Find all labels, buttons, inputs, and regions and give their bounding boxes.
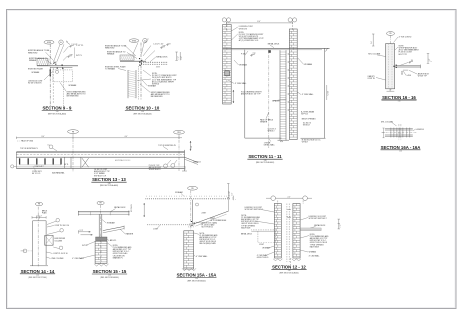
section 10-10 bolts	[139, 58, 140, 59]
section 13-13 light dashed line	[16, 154, 184, 156]
section 9-9 grid leader lines	[66, 42, 70, 45]
svg-text:REMOVED: REMOVED	[105, 48, 115, 50]
section 11-11 grid centerline right	[291, 22, 293, 30]
section 16-16 below-angle line	[403, 69, 408, 71]
section 11-11 right masonry wall	[289, 29, 297, 140]
section 12-12 right deck band	[300, 228, 321, 231]
svg-text:4" CMU WALL: 4" CMU WALL	[196, 255, 208, 258]
section 10-10 weld flag a	[161, 47, 165, 48]
section 9-9 stiffener dashed box	[53, 70, 73, 82]
svg-text:1/4: 1/4	[411, 60, 413, 62]
svg-text:SECTION 9 - 9: SECTION 9 - 9	[43, 106, 73, 111]
svg-text:COLUMN: COLUMN	[55, 240, 63, 242]
svg-text:8 1/2": 8 1/2"	[185, 165, 187, 169]
svg-text:TYP: TYP	[163, 45, 166, 47]
section 13-13 top of existing pl line	[16, 151, 184, 153]
svg-text:CONT PL 3/4 X 10: CONT PL 3/4 X 10	[55, 225, 70, 227]
section 16A splice bars	[385, 128, 413, 130]
section 13-13 beam flange bottom	[16, 166, 184, 168]
svg-text:W/ NUT TYP: W/ NUT TYP	[418, 75, 427, 77]
section 12-12 right dim stack	[338, 219, 340, 229]
svg-text:CONT PL: CONT PL	[368, 78, 375, 80]
section 15-15 left dim arrows	[79, 231, 91, 233]
section 10-10 column centerline	[138, 66, 140, 100]
section 10-10 column lines	[127, 70, 129, 98]
section 16-16 grid oval PE	[387, 32, 395, 36]
svg-text:W/ BOLT: W/ BOLT	[268, 131, 276, 133]
svg-text:METAL DECK: METAL DECK	[241, 233, 253, 236]
section 15A grid oval PE	[188, 186, 198, 190]
section 9-9 bolts	[54, 62, 55, 63]
section 15-15 hanger diagonals	[103, 226, 124, 230]
section 15-15 grid oval PE	[97, 201, 104, 205]
section 15A right dim	[227, 184, 229, 212]
svg-text:PE3: PE3	[177, 132, 180, 134]
svg-text:W BEAM: W BEAM	[32, 71, 40, 74]
svg-text:4" CMU WALL: 4" CMU WALL	[309, 254, 320, 257]
svg-text:3 1/2": 3 1/2"	[181, 56, 183, 60]
section 9-9 beam top flange	[37, 65, 78, 67]
svg-text:BRG PL: BRG PL	[110, 240, 116, 242]
section 11-11 center dashed line	[268, 49, 270, 148]
svg-text:EACH SIDE: EACH SIDE	[241, 226, 251, 229]
svg-text:1 1/2 1'-2": 1 1/2 1'-2"	[36, 216, 42, 218]
section 9-9 section cut arrows	[49, 70, 51, 75]
svg-text:GROUT SOLID: GROUT SOLID	[257, 257, 269, 259]
section 13-13 beam flange top	[16, 156, 184, 158]
svg-text:3/4" PL: 3/4" PL	[82, 245, 88, 247]
svg-text:1:10: 1:10	[195, 278, 198, 280]
section 12-12 joist dashed rect	[257, 231, 259, 243]
section 14-14 bottom ticks	[30, 265, 48, 267]
svg-text:4" CMU WALL: 4" CMU WALL	[302, 93, 314, 96]
svg-text:METAL DECK: METAL DECK	[268, 42, 280, 45]
section 11-11 left opening outline	[244, 49, 246, 138]
section 15A diagonal brace	[193, 211, 229, 224]
svg-text:W/ BOLT: W/ BOLT	[303, 125, 311, 127]
section 11-11 beam end tick	[326, 48, 328, 51]
svg-text:W BEAM: W BEAM	[239, 64, 247, 67]
svg-text:4'-0": 4'-0"	[125, 136, 128, 138]
section 15-15 break line	[94, 264, 108, 266]
svg-text:W BEAM: W BEAM	[148, 84, 156, 87]
svg-text:ANCHOR BOLT 3/4" TYP: ANCHOR BOLT 3/4" TYP	[241, 93, 261, 96]
section 10-10 right dim stack	[176, 52, 178, 60]
section 13-13 grid oval PE left	[68, 130, 79, 134]
svg-text:2 1/2": 2 1/2"	[231, 192, 233, 196]
section 9-9 weld flag top right	[70, 46, 74, 47]
svg-text:(REF. SECTION B-B000): (REF. SECTION B-B000)	[187, 281, 206, 283]
svg-text:SECTION 14 - 14: SECTION 14 - 14	[21, 269, 55, 274]
section 12-12 bottom centerline	[289, 258, 291, 265]
svg-text:REMAIN: REMAIN	[29, 59, 37, 62]
svg-text:1:10: 1:10	[36, 275, 39, 277]
section 16-16 right dim rotated	[427, 54, 429, 64]
section 16-16 junction bolts	[396, 65, 397, 66]
section 14-14 column top tick	[33, 220, 47, 222]
section 15-15 centerline	[100, 205, 102, 264]
section 13-13 detail box	[63, 157, 65, 168]
svg-text:SECTION 13 - 13: SECTION 13 - 13	[92, 177, 126, 182]
section 16-16 below-angle circles	[401, 71, 402, 72]
section 11-11 right opening outline	[323, 48, 325, 138]
section 12-12 left masonry wall	[274, 204, 281, 259]
section 13-13 right end vertical	[184, 150, 186, 171]
section 15A masonry column	[184, 231, 194, 269]
svg-text:W/ NUT: W/ NUT	[302, 142, 309, 144]
svg-text:1 1/2": 1 1/2"	[429, 58, 431, 62]
svg-text:REMAIN: REMAIN	[107, 52, 115, 55]
section 15A junction hatch	[188, 223, 190, 228]
section 10-10 deck top line	[120, 60, 146, 62]
section 9-9 bolt circle	[56, 70, 59, 73]
svg-text:PLAN: PLAN	[42, 211, 47, 214]
section 11-11 upper note leader	[231, 27, 237, 31]
section 12-12 grid bubble left	[271, 196, 276, 201]
svg-text:PE: PE	[100, 203, 102, 205]
section 13-13 centerline left	[72, 134, 74, 173]
svg-text:7 1/2": 7 1/2"	[191, 145, 193, 149]
svg-text:SECTION 10 - 10: SECTION 10 - 10	[126, 106, 160, 111]
svg-text:FACE OF CMU: FACE OF CMU	[21, 140, 34, 143]
section 16A bolt ticks	[390, 128, 392, 138]
section 10-10 grid centerline	[140, 43, 142, 100]
svg-text:W/ P 3/4: W/ P 3/4	[301, 114, 308, 116]
section 12-12 left rotated dim	[233, 196, 235, 201]
svg-text:(REF. SECTION T-T000): (REF. SECTION T-T000)	[28, 277, 46, 279]
svg-text:TO REMAIN: TO REMAIN	[105, 68, 116, 71]
section 9-9 column dashed line	[63, 68, 65, 106]
section 10-10 existing slab hatch	[120, 55, 134, 60]
section 11-11 weld flag below beam	[251, 55, 255, 56]
section 11-11 wall plate dark	[225, 71, 230, 76]
svg-text:3 5/8": 3 5/8"	[232, 196, 234, 200]
svg-text:JOIST: JOIST	[156, 66, 160, 68]
section 14-14 right column line	[45, 221, 47, 265]
section 16-16 bottom dim	[387, 90, 395, 92]
section 14-14 grid oval PE	[35, 202, 42, 206]
svg-text:W/ EXP BOLTS: W/ EXP BOLTS	[149, 169, 162, 171]
svg-text:1:10: 1:10	[288, 270, 291, 272]
section 11-11 connection block	[268, 50, 271, 53]
section 12-12 center beam dashed lines	[286, 204, 288, 263]
section 12-12 left deck dotted band	[251, 229, 275, 231]
svg-text:BE REMOVED: BE REMOVED	[67, 96, 80, 98]
section 9-9 existing slab hatch	[37, 59, 48, 66]
section 13-13 right dim bracket	[190, 141, 192, 151]
svg-text:AT (2) LOCATIONS. V.I.F.: AT (2) LOCATIONS. V.I.F.	[239, 39, 259, 42]
svg-text:SECTION 15A - 15A: SECTION 15A - 15A	[177, 273, 217, 278]
svg-text:W/ 3/4"O BOLTS: W/ 3/4"O BOLTS	[28, 83, 42, 85]
section 10-10 leader diagonals	[133, 43, 138, 54]
svg-text:1:10: 1:10	[108, 275, 111, 277]
section 13-13 X brace	[82, 158, 89, 167]
svg-text:A36 HANDRAIL: A36 HANDRAIL	[52, 172, 64, 175]
section 9-9 column second line	[52, 68, 54, 103]
section 9-9 beam second line	[50, 66, 72, 68]
svg-text:TOP OF EXISTING PL: TOP OF EXISTING PL	[20, 148, 38, 150]
svg-text:L4X4X1/4: L4X4X1/4	[193, 162, 201, 164]
section 11-11 top dimension line	[226, 22, 292, 24]
svg-text:1:10: 1:10	[399, 151, 402, 153]
section 15A junction bolts	[191, 221, 192, 222]
svg-text:W BEAM: W BEAM	[175, 191, 183, 194]
svg-text:W/ BOLTS: W/ BOLTS	[239, 28, 248, 30]
svg-text:CMU COLUMN: CMU COLUMN	[51, 258, 64, 260]
section 15-15 bearing plate	[96, 237, 107, 241]
section 13-13 grid oval PE3 right	[174, 130, 185, 134]
section 15A slab dotted band	[146, 198, 231, 200]
section 11-11 bottom ticks	[278, 139, 290, 141]
svg-text:3/4" PL: 3/4" PL	[76, 55, 82, 57]
section 10-10 weld flag b	[167, 44, 171, 45]
section 10-10 note leader to column	[137, 79, 151, 81]
svg-text:L4X4: L4X4	[407, 75, 411, 77]
svg-text:MECH OPENING: MECH OPENING	[302, 119, 316, 121]
svg-text:METAL DECK: METAL DECK	[314, 224, 326, 227]
section 9-9 right dim ticks	[74, 48, 76, 59]
section 14-14 weld circle 2	[60, 229, 64, 233]
svg-text:BEARING PL: BEARING PL	[113, 256, 123, 259]
svg-text:7'-2 1/2": 7'-2 1/2"	[327, 90, 329, 96]
section 16-16 grid centerline	[389, 35, 391, 92]
svg-text:8'-0": 8'-0"	[257, 21, 261, 23]
section 13-13 stud dim line	[20, 164, 61, 166]
section 11-11 joist ladder	[279, 50, 281, 140]
section 15A left dotted line	[147, 224, 192, 226]
svg-text:5 TYP: 5 TYP	[80, 230, 84, 232]
svg-text:REMOVED: REMOVED	[28, 52, 38, 54]
section 12-12 grid bubble right	[303, 196, 308, 201]
section 13-13 right angle detail	[185, 157, 199, 162]
section 16-16 left dim	[372, 34, 374, 46]
svg-text:(REF. SECTION B-B000): (REF. SECTION B-B000)	[100, 277, 119, 279]
svg-text:W BEAM: W BEAM	[262, 247, 270, 250]
svg-text:HANGER: HANGER	[126, 232, 134, 235]
svg-text:2 1/2": 2 1/2"	[340, 224, 342, 228]
svg-text:1:10: 1:10	[264, 160, 267, 162]
svg-text:DETAIL WALL: DETAIL WALL	[264, 144, 275, 147]
svg-text:TOP OF EXISTING PL: TOP OF EXISTING PL	[158, 145, 176, 147]
section 11-11 grid bubbles right	[288, 18, 292, 22]
svg-text:JOIST: JOIST	[153, 228, 158, 230]
svg-text:TYP: TYP	[253, 53, 256, 55]
svg-text:EXISTING PLATE: EXISTING PLATE	[28, 67, 44, 70]
svg-text:W BEAM: W BEAM	[304, 63, 312, 66]
section 12-12 grid centerlines	[277, 200, 279, 204]
section 15A break line	[182, 268, 196, 270]
section 11-11 grid centerline left	[225, 22, 227, 30]
section 10-10 note leader	[143, 70, 151, 76]
svg-text:8'-0": 8'-0"	[42, 136, 45, 138]
section 15-15 beam end ticks	[77, 211, 79, 216]
svg-text:BOLT TYP.: BOLT TYP.	[399, 54, 408, 56]
section 10-10 grid bubble A	[143, 38, 147, 42]
section 15A slab edge tick row	[147, 195, 231, 197]
svg-text:VENEER: VENEER	[260, 122, 268, 124]
section 12-12 right masonry wall	[293, 204, 300, 259]
svg-text:(REF. SECTION B-B000): (REF. SECTION B-B000)	[256, 162, 275, 164]
section 13-13 dimension line	[16, 137, 182, 139]
svg-text:NOTE:: NOTE:	[200, 233, 205, 235]
svg-text:SECTION 11 - 11: SECTION 11 - 11	[248, 154, 282, 159]
section 9-9 grid centerline	[49, 44, 51, 106]
svg-text:4" CMU WALL: 4" CMU WALL	[72, 257, 84, 260]
svg-text:GL 3 CORNER EDGE: GL 3 CORNER EDGE	[210, 220, 226, 222]
svg-text:1:10: 1:10	[398, 101, 401, 103]
section 13-13 centerline right	[178, 134, 180, 171]
section 15A vertical line	[191, 200, 193, 225]
svg-text:PE: PE	[38, 204, 40, 206]
section 16-16 column	[386, 44, 395, 89]
section 13-13 weld circles right	[164, 164, 168, 168]
section 11-11 left masonry wall	[223, 25, 232, 105]
section 13-13 shear studs	[19, 158, 20, 164]
section 15-15 beam lines	[78, 211, 129, 213]
section 15A small circle	[196, 203, 199, 206]
svg-text:4" CMU WALL: 4" CMU WALL	[235, 82, 247, 85]
section 9-9 leader diagonals	[54, 44, 61, 62]
section 11-11 wall anchor dots	[288, 54, 289, 55]
svg-text:TYP.: TYP.	[70, 54, 74, 56]
section 15A centerline	[190, 190, 192, 230]
section 14-14 weld circle 1	[56, 218, 60, 222]
section 10-10 grid oval GRID	[129, 39, 139, 43]
svg-text:1 1/2" PL: 1 1/2" PL	[76, 45, 83, 47]
svg-text:SECTION 12 - 12: SECTION 12 - 12	[272, 264, 306, 269]
section 14-14 top dim	[32, 216, 46, 218]
svg-text:SECTION 15 - 15: SECTION 15 - 15	[93, 269, 127, 274]
svg-text:W BEAM: W BEAM	[107, 222, 115, 225]
svg-text:L6X6X3/4: L6X6X3/4	[416, 129, 424, 131]
svg-text:1/4: 1/4	[48, 144, 50, 146]
svg-text:3'-4 1/2": 3'-4 1/2"	[229, 191, 231, 196]
section 9-9 grid oval GRID	[44, 40, 54, 44]
section 14-14 plate rect	[45, 235, 53, 245]
svg-text:SECTION 16 - 16: SECTION 16 - 16	[382, 95, 416, 100]
svg-text:W/ P4 NUT VERT BOLT: W/ P4 NUT VERT BOLT	[309, 218, 327, 220]
svg-text:1:10: 1:10	[141, 111, 144, 113]
svg-text:EACH SIDE: EACH SIDE	[310, 245, 320, 248]
section 16A centerlines	[398, 124, 400, 141]
svg-text:GROUT SOLID CELLS: GROUT SOLID CELLS	[200, 241, 217, 243]
section 11-11 left wall bottom dim	[232, 90, 234, 103]
svg-text:1:10: 1:10	[56, 111, 59, 113]
section 9-9 weld flag right	[68, 56, 72, 57]
section 14-14 centerline	[37, 207, 39, 267]
section 15A left dim	[143, 203, 145, 217]
section 15-15 beam intermediate ticks	[90, 211, 92, 215]
svg-text:2'-0": 2'-0"	[288, 196, 291, 198]
section 11-11 right dim rotated	[326, 85, 328, 100]
svg-text:W BEAM: W BEAM	[69, 84, 77, 87]
section 11-11 grid bubbles left	[222, 18, 226, 22]
section 13-13 weld circle detail	[49, 145, 53, 149]
svg-text:1:10: 1:10	[108, 183, 111, 185]
section 12-12 break lines	[273, 259, 282, 261]
svg-text:JOIST: JOIST	[201, 212, 206, 214]
svg-text:3/4" PL: 3/4" PL	[64, 164, 68, 166]
section 9-9 grid bubble A	[59, 40, 63, 44]
section 13-13 end marker circle	[11, 165, 14, 168]
section 14-14 weld circle 3	[59, 246, 63, 250]
svg-text:AT 12 O.C.: AT 12 O.C.	[32, 172, 41, 175]
section 12-12 top dim line	[276, 197, 303, 199]
section 11-11 beam line	[223, 47, 330, 49]
svg-text:EXIST.: EXIST.	[210, 218, 215, 220]
svg-text:(REF. SECTION 10-B000): (REF. SECTION 10-B000)	[279, 272, 299, 274]
svg-text:CONT PL 3/4 X 10: CONT PL 3/4 X 10	[53, 253, 68, 255]
svg-text:W BEAM: W BEAM	[309, 251, 317, 254]
section 14-14 left boundary line	[32, 221, 34, 266]
svg-text:METAL DECK: METAL DECK	[156, 56, 168, 59]
section 15-15 column web lines	[98, 214, 100, 238]
svg-text:SECTION 16A - 16A: SECTION 16A - 16A	[381, 145, 421, 150]
section 14-14 left datum circle	[23, 249, 27, 253]
svg-text:1'-4": 1'-4"	[371, 41, 373, 44]
section 16-16 horizontal angle	[396, 65, 421, 67]
section 13-13 beam left end ticks	[15, 152, 17, 169]
svg-text:4" TOE CONTD: 4" TOE CONTD	[399, 36, 412, 38]
svg-text:W/ P4 NUT VERT BOLT: W/ P4 NUT VERT BOLT	[245, 209, 263, 211]
svg-text:2 1/2": 2 1/2"	[177, 56, 179, 60]
svg-text:BE REMOVED: BE REMOVED	[151, 96, 164, 98]
svg-text:1'-0 1/2" 1 1/2": 1'-0 1/2" 1 1/2"	[153, 44, 164, 46]
section 16A left dims	[383, 128, 385, 138]
section 10-10 deck dotted band	[139, 61, 167, 63]
section 15-15 masonry column	[95, 241, 107, 263]
svg-text:METAL DECK: METAL DECK	[114, 206, 126, 209]
section 16-16 weld flag	[409, 62, 413, 63]
